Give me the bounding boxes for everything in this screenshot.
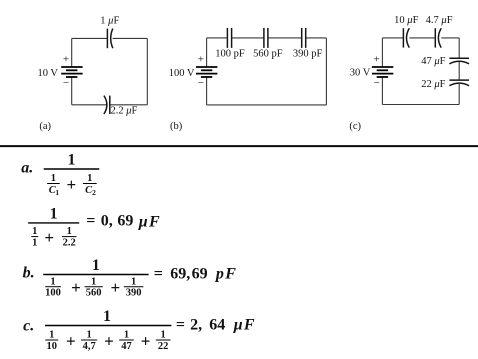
svg-text:1: 1 bbox=[32, 238, 37, 249]
svg-text:+: + bbox=[110, 278, 120, 297]
svg-text:+: + bbox=[198, 53, 204, 65]
svg-text:100 pF: 100 pF bbox=[215, 49, 245, 60]
svg-text:1: 1 bbox=[67, 226, 72, 237]
svg-text:10 V: 10 V bbox=[37, 68, 58, 79]
svg-text:2.2: 2.2 bbox=[63, 238, 76, 249]
svg-text:4,7: 4,7 bbox=[83, 341, 96, 352]
svg-text:390 pF: 390 pF bbox=[293, 49, 323, 60]
svg-text:2: 2 bbox=[92, 188, 96, 197]
svg-text:22: 22 bbox=[158, 341, 169, 352]
svg-text:1: 1 bbox=[92, 257, 100, 274]
svg-text:390: 390 bbox=[126, 288, 142, 299]
svg-text:μF: μF bbox=[138, 213, 161, 230]
svg-text:1: 1 bbox=[87, 330, 92, 341]
svg-text:+: + bbox=[373, 53, 379, 65]
svg-text:=69,69: =69,69 bbox=[154, 266, 208, 283]
svg-text:4.7 μF: 4.7 μF bbox=[426, 15, 453, 26]
svg-text:+: + bbox=[71, 278, 81, 297]
svg-text:−: − bbox=[198, 77, 204, 89]
svg-text:1: 1 bbox=[51, 173, 56, 184]
svg-text:47: 47 bbox=[121, 341, 132, 352]
svg-text:47 μF: 47 μF bbox=[421, 56, 445, 67]
svg-text:560: 560 bbox=[86, 288, 102, 299]
svg-text:1: 1 bbox=[50, 276, 55, 287]
svg-text:1: 1 bbox=[124, 330, 129, 341]
svg-text:1 μF: 1 μF bbox=[100, 16, 119, 27]
svg-text:(b): (b) bbox=[170, 121, 183, 132]
svg-text:+: + bbox=[63, 53, 69, 65]
svg-text:1: 1 bbox=[131, 276, 136, 287]
svg-text:pF: pF bbox=[214, 266, 237, 283]
svg-text:1: 1 bbox=[50, 205, 58, 222]
svg-text:(c): (c) bbox=[349, 121, 361, 132]
svg-text:560 pF: 560 pF bbox=[253, 49, 283, 60]
svg-text:b.: b. bbox=[23, 265, 35, 282]
svg-text:22 μF: 22 μF bbox=[421, 79, 445, 90]
svg-text:100 V: 100 V bbox=[169, 68, 195, 79]
svg-text:10: 10 bbox=[47, 341, 58, 352]
svg-text:a.: a. bbox=[21, 160, 33, 177]
svg-text:1: 1 bbox=[32, 226, 37, 237]
svg-text:1: 1 bbox=[103, 308, 111, 325]
svg-text:=2,64: =2,64 bbox=[176, 316, 225, 333]
svg-text:30 V: 30 V bbox=[350, 68, 371, 79]
svg-text:10 μF: 10 μF bbox=[394, 15, 418, 26]
svg-text:+: + bbox=[104, 331, 114, 350]
svg-text:+: + bbox=[66, 331, 76, 350]
svg-text:1: 1 bbox=[55, 188, 59, 197]
svg-text:c.: c. bbox=[23, 317, 34, 334]
svg-text:−: − bbox=[63, 77, 69, 89]
svg-text:μF: μF bbox=[233, 316, 256, 333]
svg-text:=0,69: =0,69 bbox=[86, 212, 133, 229]
svg-text:+: + bbox=[141, 331, 151, 350]
svg-text:1: 1 bbox=[161, 330, 166, 341]
svg-text:100: 100 bbox=[45, 288, 61, 299]
svg-text:(a): (a) bbox=[39, 121, 51, 132]
svg-text:1: 1 bbox=[87, 173, 92, 184]
svg-text:+: + bbox=[66, 175, 76, 194]
svg-text:1: 1 bbox=[68, 152, 76, 169]
svg-text:1: 1 bbox=[49, 330, 54, 341]
svg-text:−: − bbox=[373, 77, 379, 89]
svg-text:+: + bbox=[44, 228, 54, 247]
svg-text:2.2 μF: 2.2 μF bbox=[111, 106, 138, 117]
svg-text:1: 1 bbox=[91, 276, 96, 287]
